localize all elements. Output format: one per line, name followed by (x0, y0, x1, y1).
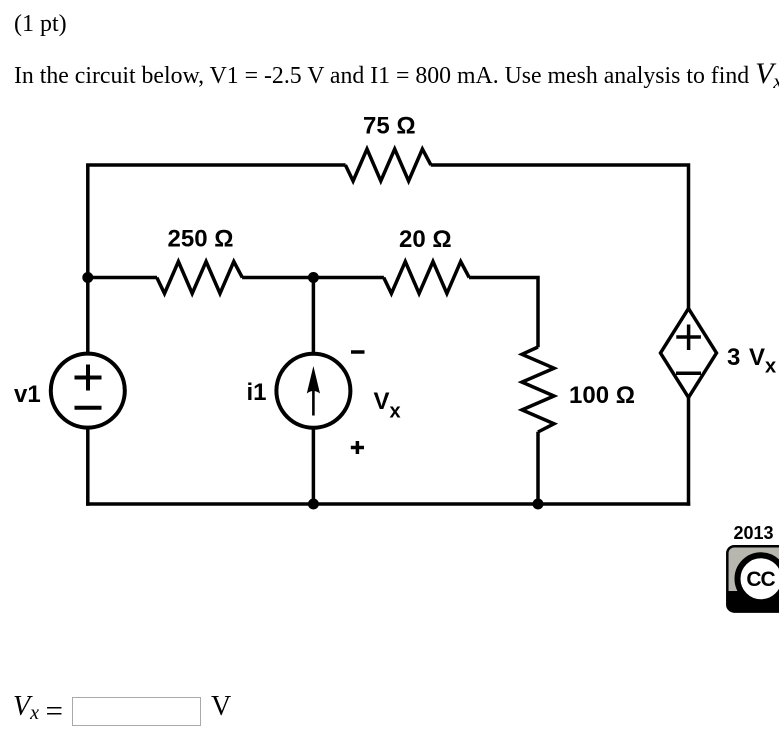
svg-text:V: V (749, 344, 765, 371)
label 20 ohm (399, 226, 452, 253)
dependent source diamond (661, 309, 717, 398)
answer label Vx = (13, 691, 39, 723)
voltage source v1 circle (51, 354, 125, 428)
svg-text:i1: i1 (247, 379, 267, 406)
wire left vertical lower segment (86, 428, 90, 506)
Vx polarity minus mark (351, 350, 365, 354)
equals sign (46, 693, 63, 729)
label 3 Vx (727, 344, 776, 378)
diamond minus sign (676, 372, 701, 376)
current source i1 circle (276, 354, 350, 428)
wire middle vertical upper segment (312, 278, 316, 355)
i1 arrow (307, 366, 320, 416)
resistor R250 (250 ohm) (157, 262, 243, 294)
resistor R75 (75 ohm) (345, 149, 431, 181)
answer input box (72, 697, 201, 727)
wire middle row between 250 ohm and 20 ohm (242, 276, 384, 280)
resistor R100 (100 ohm, vertical) (522, 347, 554, 432)
junction node center-bottom (308, 499, 319, 510)
label i1 (247, 379, 267, 406)
svg-text:20 Ω: 20 Ω (399, 226, 452, 253)
svg-text:100 Ω: 100 Ω (569, 382, 635, 409)
wire top from left corner to 75-ohm resistor (88, 163, 346, 165)
wire middle row from 20 ohm down to 100 ohm branch (469, 278, 538, 348)
junction node left-middle (82, 272, 93, 283)
wire middle row left stub (88, 276, 157, 280)
svg-text:V: V (374, 388, 390, 415)
label v1 (14, 381, 41, 408)
label Vx (374, 388, 401, 423)
junction node center-middle (308, 272, 319, 283)
Vx polarity plus mark (351, 441, 364, 454)
svg-text:250 Ω: 250 Ω (168, 226, 234, 253)
svg-text:CC: CC (746, 568, 775, 591)
svg-text:75 Ω: 75 Ω (363, 113, 416, 140)
wire 100 ohm branch lower segment (536, 432, 540, 504)
wire right vertical lower segment (687, 397, 691, 506)
answer unit V (211, 691, 231, 723)
header points label (14, 11, 67, 38)
label 250 ohm (168, 226, 234, 253)
label 2013 (734, 523, 774, 543)
svg-text:3: 3 (727, 344, 740, 371)
svg-text:v1: v1 (14, 381, 41, 408)
wire bottom rail (86, 502, 690, 506)
wire middle vertical lower segment (312, 428, 316, 506)
wire left vertical upper segment (86, 165, 90, 354)
label 100 ohm (569, 382, 635, 409)
v1 minus sign (75, 406, 102, 410)
label 75 ohm (363, 113, 416, 140)
wire top from 75-ohm resistor to right corner (431, 165, 689, 310)
v1 plus sign (75, 365, 102, 391)
svg-text:x: x (390, 401, 401, 423)
problem statement text (14, 57, 779, 91)
resistor R20 (20 ohm) (384, 262, 470, 294)
svg-text:x: x (765, 356, 776, 378)
svg-text:2013: 2013 (734, 523, 774, 543)
CC license badge (727, 546, 779, 611)
junction node 100ohm-bottom (533, 499, 544, 510)
diamond plus sign (676, 325, 701, 351)
